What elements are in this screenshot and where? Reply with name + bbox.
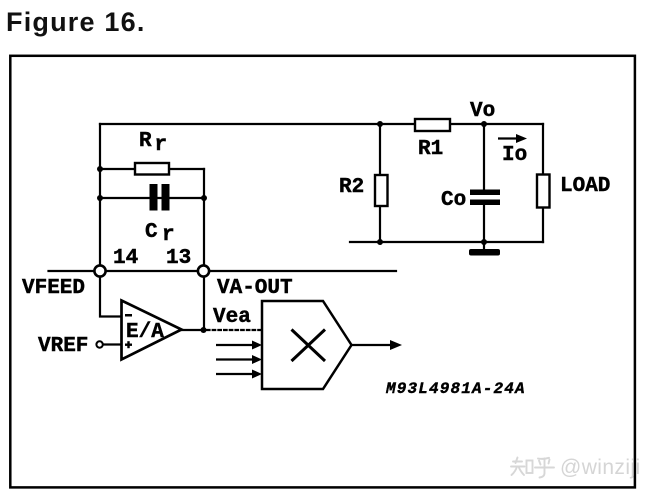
- svg-text:VFEED: VFEED: [22, 277, 85, 300]
- svg-text:R1: R1: [418, 138, 443, 161]
- svg-text:14: 14: [113, 247, 138, 270]
- svg-text:LOAD: LOAD: [560, 175, 610, 198]
- svg-text:Io: Io: [502, 144, 527, 167]
- svg-text:R: R: [139, 130, 152, 153]
- svg-text:13: 13: [166, 247, 191, 270]
- svg-text:VREF: VREF: [38, 335, 88, 358]
- svg-text:r: r: [155, 134, 168, 157]
- svg-text:E/A: E/A: [126, 321, 164, 344]
- svg-text:R2: R2: [339, 176, 364, 199]
- svg-text:M93L4981A-24A: M93L4981A-24A: [385, 380, 526, 398]
- svg-text:Vo: Vo: [470, 100, 495, 123]
- svg-text:Co: Co: [441, 189, 466, 212]
- svg-text:VA-OUT: VA-OUT: [217, 277, 293, 300]
- svg-text:Vea: Vea: [213, 306, 251, 329]
- svg-text:C: C: [145, 221, 158, 244]
- svg-text:r: r: [162, 224, 175, 247]
